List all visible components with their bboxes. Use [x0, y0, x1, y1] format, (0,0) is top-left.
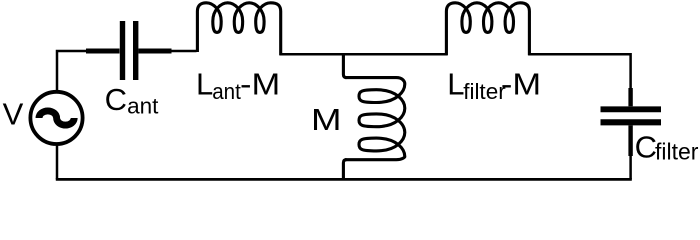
- label C of C_ant: [105, 82, 127, 117]
- inductor M (shunt): [345, 78, 405, 160]
- node: junction of shunt branch on top wire: [343, 54, 346, 77]
- svg-text:V: V: [3, 97, 24, 132]
- AC voltage source V: [30, 92, 82, 144]
- svg-text:L: L: [196, 66, 213, 101]
- label C of C_filter: [635, 129, 657, 164]
- svg-text:ant: ant: [127, 94, 159, 119]
- svg-text:L: L: [447, 66, 464, 101]
- label L of L_filter-M: [447, 66, 464, 101]
- inductor L_filter-M: [446, 3, 529, 56]
- capacitor C_filter: [601, 88, 662, 156]
- svg-text:-M: -M: [501, 66, 541, 101]
- svg-text:C: C: [105, 82, 127, 117]
- svg-text:-M: -M: [240, 66, 280, 101]
- wire: source top lead and top-left rail: [57, 51, 87, 92]
- label ant subscript: [127, 94, 159, 119]
- label V: [3, 97, 24, 132]
- label filter subscript: [655, 139, 699, 165]
- label filter subscript: [463, 79, 506, 104]
- svg-text:M: M: [311, 102, 342, 137]
- svg-text:ant: ant: [212, 79, 241, 104]
- wire: C_filter bottom lead: [629, 155, 632, 179]
- wire: L_ant-M to L_filter-M: [280, 53, 448, 56]
- label L of L_ant-M: [196, 66, 213, 101]
- label M: [311, 102, 342, 137]
- svg-text:filter: filter: [655, 139, 699, 165]
- wire: C_ant to L_ant-M: [171, 50, 197, 53]
- svg-text:filter: filter: [463, 79, 506, 104]
- label -M of L_filter-M: [501, 66, 541, 101]
- wire: M inductor bottom lead to bottom rail: [343, 160, 346, 180]
- wire: bottom return rail: [56, 178, 632, 181]
- capacitor C_ant: [86, 21, 172, 80]
- wire: source bottom lead: [56, 143, 59, 179]
- label ant subscript: [212, 79, 241, 104]
- inductor L_ant-M: [197, 3, 280, 56]
- wire: L_filter-M to C_filter top: [528, 54, 630, 90]
- label -M of L_ant-M: [240, 66, 280, 101]
- svg-text:C: C: [635, 129, 657, 164]
